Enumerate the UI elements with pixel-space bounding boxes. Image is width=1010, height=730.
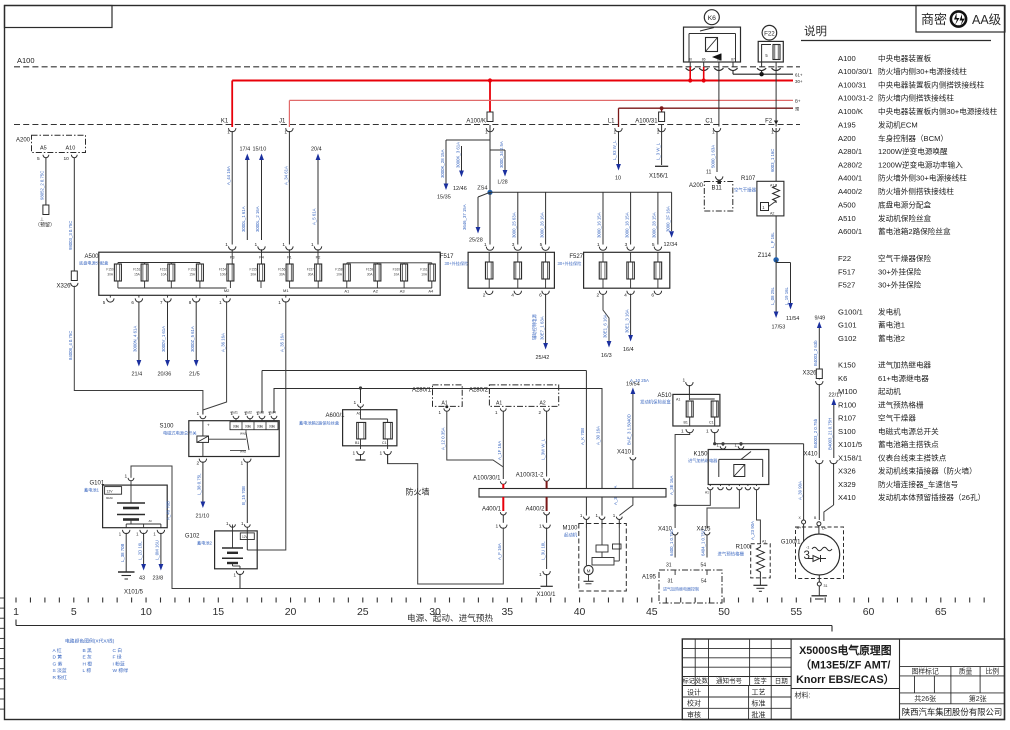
svg-text:控制: 控制 [233,425,239,429]
svg-text:A510: A510 [657,393,672,399]
svg-text:3000_16 15A: 3000_16 15A [597,212,602,238]
svg-text:65: 65 [935,606,947,618]
svg-text:-M: -M [148,519,152,523]
svg-text:G100/1: G100/1 [781,540,801,546]
svg-text:底盘电源分配盒: 底盘电源分配盒 [878,199,932,209]
svg-text:材料:: 材料: [795,691,811,700]
svg-text:17/53: 17/53 [772,325,786,331]
svg-text:A500: A500 [84,254,99,260]
svg-text:电磁式电源总开关: 电磁式电源总开关 [878,426,939,436]
svg-text:1: 1 [241,461,244,467]
svg-text:AA级: AA级 [972,13,1002,27]
svg-text:A195: A195 [838,120,856,129]
svg-text:6400_1 0.75C: 6400_1 0.75C [669,529,674,556]
svg-text:审核: 审核 [687,710,701,719]
svg-text:10: 10 [615,176,621,182]
svg-text:商密: 商密 [921,12,947,27]
svg-text:3000K_28 15A: 3000K_28 15A [440,149,445,178]
svg-text:F527: F527 [569,254,583,260]
svg-text:L_08 25L: L_08 25L [770,286,775,305]
svg-text:B1: B1 [684,421,688,425]
svg-text:45: 45 [646,606,658,618]
svg-text:F2: F2 [765,118,773,124]
svg-text:L_3 W_L: L_3 W_L [655,142,660,160]
svg-text:中央电器装置板内侧30+电源接线柱: 中央电器装置板内侧30+电源接线柱 [878,106,998,116]
svg-text:L_2D 16L: L_2D 16L [137,541,142,560]
svg-text:A_44 16A: A_44 16A [226,166,231,185]
svg-text:31: 31 [668,579,674,585]
svg-text:蓄电池箱2路保险丝盒: 蓄电池箱2路保险丝盒 [299,420,340,427]
svg-text:L_38 70B: L_38 70B [120,543,125,562]
svg-text:30: 30 [688,58,692,62]
svg-text:A100/31: A100/31 [635,118,658,124]
svg-text:5: 5 [71,606,77,618]
svg-text:F 绿: F 绿 [113,654,122,661]
svg-text:A_5 61A: A_5 61A [312,208,317,225]
svg-text:X101/5: X101/5 [838,440,862,449]
svg-text:1: 1 [282,242,285,248]
svg-text:6: 6 [539,293,542,299]
svg-text:3000V_1 61A: 3000V_1 61A [161,326,166,352]
svg-text:B4003_2 0.75b: B4003_2 0.75b [813,418,818,448]
svg-text:G101: G101 [838,321,857,330]
svg-text:100A: 100A [220,273,228,277]
svg-text:防火墙内侧搭铁接线柱: 防火墙内侧搭铁接线柱 [878,93,954,103]
svg-text:L_3W W_L: L_3W W_L [540,438,545,460]
svg-text:L_0M 16U: L_0M 16U [155,540,160,560]
svg-text:F22: F22 [838,254,851,263]
svg-text:A5: A5 [40,146,47,152]
svg-text:6404_1 0.75C: 6404_1 0.75C [701,529,706,556]
svg-text:蓄电池2: 蓄电池2 [197,540,213,547]
svg-text:B+: B+ [797,526,803,530]
svg-text:A_30 16A: A_30 16A [596,426,601,445]
svg-text:35: 35 [501,606,513,618]
svg-text:20: 20 [285,606,297,618]
svg-text:10: 10 [64,156,70,162]
svg-text:98052_2 0.75C: 98052_2 0.75C [40,171,45,200]
svg-text:12V: 12V [242,535,249,539]
svg-text:F159: F159 [366,268,373,272]
svg-text:1: 1 [284,130,287,136]
svg-text:X158/1: X158/1 [838,453,862,462]
svg-text:90Ah: 90Ah [106,496,113,500]
svg-text:L1: L1 [608,118,615,124]
svg-text:1: 1 [614,130,617,136]
svg-text:X5000S电气原理图: X5000S电气原理图 [799,643,892,657]
svg-text:3000_18 15A: 3000_18 15A [624,212,629,238]
svg-text:1: 1 [597,242,600,248]
svg-text:S100: S100 [838,427,856,436]
svg-text:23/8: 23/8 [153,576,164,582]
svg-text:1: 1 [539,572,542,578]
svg-text:16/3: 16/3 [601,353,612,359]
svg-text:防火墙连接器_车速信号: 防火墙连接器_车速信号 [878,479,959,489]
svg-text:F517: F517 [440,254,454,260]
svg-text:A510: A510 [838,214,856,223]
svg-text:进气加热继电器: 进气加热继电器 [878,360,932,370]
svg-text:5000_1 63A: 5000_1 63A [711,145,716,168]
svg-text:L_3U 10L: L_3U 10L [540,541,545,560]
svg-text:12/46: 12/46 [453,186,467,192]
svg-text:A500: A500 [838,200,856,209]
svg-text:H 橙: H 橙 [83,660,93,667]
svg-text:A200: A200 [838,134,856,143]
svg-text:X326: X326 [838,467,856,476]
svg-text:A 红: A 红 [53,647,62,654]
svg-text:A_35 16A: A_35 16A [280,333,285,352]
svg-text:A100/31-2: A100/31-2 [838,94,873,103]
svg-text:蓄电池2: 蓄电池2 [878,333,905,343]
svg-text:30+外挂保险: 30+外挂保险 [558,260,583,267]
svg-text:B4003_2 63b: B4003_2 63b [813,340,818,366]
svg-text:30A: 30A [367,273,374,277]
svg-text:87: 87 [731,58,735,62]
svg-text:A100/31: A100/31 [838,80,866,89]
svg-text:起动机: 起动机 [564,532,578,539]
svg-text:A_46 70B: A_46 70B [166,501,171,520]
svg-text:F153: F153 [188,268,195,272]
svg-text:K6: K6 [838,374,847,383]
svg-text:A100/K: A100/K [466,118,486,124]
svg-text:-1: -1 [806,546,809,550]
svg-text:A_K 70B: A_K 70B [580,428,585,445]
svg-text:D 黄: D 黄 [53,654,63,661]
svg-text:4: 4 [511,293,514,299]
svg-text:X410: X410 [617,450,632,456]
svg-text:61+电源继电器: 61+电源继电器 [878,373,929,383]
svg-text:日期: 日期 [775,677,789,685]
svg-text:60: 60 [863,606,875,618]
svg-text:Out2: Out2 [245,411,252,415]
svg-text:A100/31-2: A100/31-2 [516,473,544,479]
svg-text:ZS4: ZS4 [477,186,487,192]
svg-text:X329: X329 [838,480,856,489]
svg-text:5: 5 [540,242,543,248]
svg-text:25/42: 25/42 [536,355,550,361]
svg-text:G102: G102 [185,534,200,540]
svg-text:30E1_6 16A: 30E1_6 16A [603,314,608,338]
svg-text:X410: X410 [803,452,818,458]
svg-text:3: 3 [804,550,810,562]
svg-text:A_39 90A: A_39 90A [797,481,802,500]
svg-text:L_F 16L: L_F 16L [770,232,775,248]
svg-text:X101/5: X101/5 [124,590,144,596]
svg-text:发动机保险丝盒: 发动机保险丝盒 [640,399,671,406]
svg-text:蓄电池1: 蓄电池1 [84,487,100,494]
svg-text:说明: 说明 [804,24,827,38]
svg-text:X156/1: X156/1 [649,174,669,180]
svg-text:3000_26 16A: 3000_26 16A [539,212,544,238]
svg-text:A400/1: A400/1 [482,507,502,513]
svg-text:50: 50 [718,606,730,618]
svg-text:G102: G102 [838,334,857,343]
svg-text:10: 10 [140,606,152,618]
svg-text:1: 1 [657,130,660,136]
svg-text:M: M [587,568,591,573]
svg-text:F151: F151 [133,268,140,272]
svg-text:25: 25 [357,606,369,618]
svg-text:+: + [207,423,210,428]
svg-text:A100/30/1: A100/30/1 [838,67,873,76]
svg-text:25/28: 25/28 [469,238,483,244]
svg-text:X326: X326 [802,371,817,377]
svg-text:通知书号: 通知书号 [716,676,743,685]
svg-text:S100: S100 [159,424,174,430]
svg-text:F22: F22 [764,30,775,37]
svg-text:B 黑: B 黑 [83,648,93,654]
svg-text:L_38 0.75L: L_38 0.75L [197,473,202,495]
svg-text:R107: R107 [741,176,756,182]
svg-text:K6: K6 [708,15,717,22]
svg-text:发电机: 发电机 [878,306,901,316]
svg-text:B_15 70B: B_15 70B [241,486,246,505]
svg-text:A280/2: A280/2 [838,161,862,170]
svg-text:40: 40 [574,606,586,618]
svg-text:F154: F154 [219,268,226,272]
svg-text:54: 54 [701,579,707,585]
svg-text:发动机保险丝盒: 发动机保险丝盒 [878,213,932,223]
svg-text:F156: F156 [278,268,285,272]
svg-text:W 棕绿: W 棕绿 [113,667,129,674]
svg-text:10A: 10A [421,273,428,277]
svg-text:3000L_2 16A: 3000L_2 16A [255,206,260,232]
svg-text:1: 1 [484,242,487,248]
svg-text:1: 1 [485,130,488,136]
svg-text:标准: 标准 [752,699,766,708]
svg-text:（M13E5/ZF AMT/: （M13E5/ZF AMT/ [800,659,890,672]
svg-text:防火墙外侧30+电源接线柱: 防火墙外侧30+电源接线柱 [878,173,967,183]
svg-text:98003_3 0.75C: 98003_3 0.75C [68,221,73,250]
svg-text:电源、起动、进气预热: 电源、起动、进气预热 [407,612,493,623]
svg-text:A2: A2 [540,401,546,407]
svg-text:K1: K1 [221,118,229,124]
svg-text:电磁式电源总开关: 电磁式电源总开关 [163,430,197,437]
svg-text:A2: A2 [770,211,774,215]
svg-text:2: 2 [197,461,200,467]
svg-text:C1: C1 [705,118,713,124]
svg-text:Out1: Out1 [231,411,238,415]
svg-text:M100: M100 [563,526,579,532]
svg-text:F155: F155 [250,268,257,272]
svg-text:A100: A100 [17,56,35,65]
svg-text:31: 31 [666,563,672,569]
svg-text:20/4: 20/4 [311,147,322,153]
svg-text:6003_1 16C: 6003_1 16C [770,149,775,172]
svg-text:发动机本体预留插接器（26孔）: 发动机本体预留插接器（26孔） [878,492,985,502]
svg-text:蓄电池1: 蓄电池1 [878,320,905,330]
svg-text:图样标记: 图样标记 [912,667,939,676]
svg-text:控制: 控制 [257,425,263,429]
svg-text:L_93 W_L: L_93 W_L [612,140,617,160]
svg-text:1: 1 [681,429,684,435]
svg-text:共26张: 共26张 [914,694,936,703]
svg-text:30A: 30A [279,273,286,277]
svg-text:中央电器装置板内侧搭铁接线柱: 中央电器装置板内侧搭铁接线柱 [878,79,985,89]
svg-text:K150: K150 [693,452,708,458]
svg-text:1: 1 [225,242,228,248]
svg-text:6: 6 [651,293,654,299]
svg-text:F157: F157 [307,268,314,272]
svg-text:9/49: 9/49 [815,316,826,322]
svg-text:L 棕: L 棕 [83,667,92,674]
svg-text:A_F 16A: A_F 16A [497,543,502,560]
svg-text:G 紫: G 紫 [53,661,63,667]
svg-text:54: 54 [701,563,707,569]
svg-text:A1: A1 [676,398,680,402]
svg-text:1200W逆变电源功率输入: 1200W逆变电源功率输入 [878,160,963,170]
svg-text:84008_4 0.75C: 84008_4 0.75C [68,331,73,360]
svg-text:15/10: 15/10 [253,147,267,153]
svg-text:M1: M1 [283,288,289,293]
svg-text:签字: 签字 [754,676,768,685]
svg-text:1: 1 [353,451,356,457]
svg-text:1: 1 [354,400,357,406]
svg-text:11: 11 [706,170,711,176]
svg-text:B11: B11 [712,186,723,192]
svg-text:控制: 控制 [269,425,275,429]
svg-text:3000_25 63A: 3000_25 63A [512,212,517,238]
svg-text:A1: A1 [762,540,766,544]
svg-text:A195: A195 [642,575,657,581]
svg-text:A600/1: A600/1 [838,227,862,236]
svg-text:55: 55 [790,606,802,618]
svg-text:预: 预 [795,106,799,113]
svg-text:（预留）: （预留） [35,222,55,229]
svg-text:2: 2 [483,293,486,299]
svg-text:M2: M2 [224,288,230,293]
svg-text:30E1_3 16A: 30E1_3 16A [624,309,629,333]
svg-text:2: 2 [597,293,600,299]
svg-text:校对: 校对 [687,699,701,708]
svg-text:21/10: 21/10 [196,514,210,520]
svg-text:12/34: 12/34 [664,242,678,248]
svg-text:1: 1 [197,411,200,417]
svg-text:A1: A1 [496,401,502,407]
svg-text:A_3E 16A: A_3E 16A [669,476,674,495]
svg-text:F517: F517 [838,267,855,276]
svg-text:空气干燥器保险: 空气干燥器保险 [878,253,932,263]
svg-text:A1: A1 [344,288,350,293]
svg-text:11/54: 11/54 [786,316,799,322]
svg-text:A_36 16A: A_36 16A [220,333,225,352]
svg-text:底盘电源分配盒: 底盘电源分配盒 [79,260,109,267]
svg-text:31: 31 [824,584,828,588]
svg-text:车身控制器（BCM）: 车身控制器（BCM） [878,133,948,143]
svg-text:A400/2: A400/2 [525,507,545,513]
svg-text:F152: F152 [160,268,167,272]
svg-text:21/5: 21/5 [189,372,200,378]
svg-text:85: 85 [717,58,721,62]
svg-text:X100/1: X100/1 [537,592,557,598]
svg-text:工艺: 工艺 [752,688,766,696]
svg-text:A1: A1 [770,184,774,188]
svg-text:I 粉蓝: I 粉蓝 [113,660,125,667]
svg-text:空气干燥器: 空气干燥器 [734,187,757,194]
svg-text:陕西汽车集团股份有限公司: 陕西汽车集团股份有限公司 [902,707,1003,717]
svg-text:进气预热格栅: 进气预热格栅 [718,551,745,558]
svg-text:86: 86 [702,58,706,62]
svg-text:A100/K: A100/K [838,107,863,116]
svg-text:30E7_1 63A: 30E7_1 63A [539,316,544,340]
svg-text:15A: 15A [134,273,141,277]
svg-text:X410: X410 [838,493,856,502]
svg-text:A_12 0.35A: A_12 0.35A [441,427,446,450]
svg-text:1: 1 [712,130,715,136]
svg-text:进气预热格栅: 进气预热格栅 [878,399,924,409]
svg-text:30+外挂保险: 30+外挂保险 [878,280,922,290]
svg-text:电路颜色图例(X代X/线): 电路颜色图例(X代X/线) [65,638,115,645]
svg-text:A100/30/1: A100/30/1 [473,476,501,482]
svg-text:A_10 25A: A_10 25A [630,378,649,383]
svg-text:L/28: L/28 [498,180,508,186]
svg-text:12V: 12V [107,490,114,494]
svg-text:A200: A200 [16,138,31,144]
svg-text:A280/1: A280/1 [838,147,862,156]
svg-text:30+: 30+ [795,79,803,84]
svg-text:A10: A10 [66,146,76,152]
svg-text:G100/1: G100/1 [838,307,863,316]
svg-text:标记: 标记 [683,677,695,685]
svg-text:30A: 30A [107,273,114,277]
svg-text:A100: A100 [838,54,856,63]
svg-text:B4003_21 0.75H: B4003_21 0.75H [828,418,833,450]
svg-text:21/4: 21/4 [132,372,143,378]
svg-text:A1: A1 [705,491,709,495]
svg-text:B+: B+ [795,99,801,104]
svg-text:蓄电池箱主搭铁点: 蓄电池箱主搭铁点 [878,439,939,449]
svg-text:15: 15 [212,606,224,618]
svg-text:61+: 61+ [795,73,803,78]
svg-text:BAE_3 1.5040D: BAE_3 1.5040D [627,414,632,445]
svg-text:F527: F527 [838,281,855,290]
svg-text:空气干燥器: 空气干燥器 [878,413,916,423]
svg-text:15/35: 15/35 [437,195,451,201]
svg-text:F161: F161 [420,268,427,272]
svg-text:1: 1 [227,130,230,136]
svg-text:30+外挂保险: 30+外挂保险 [878,266,922,276]
svg-text:15A: 15A [189,273,196,277]
svg-text:16/4: 16/4 [623,347,634,353]
svg-text:第2张: 第2张 [969,694,987,703]
svg-text:1: 1 [706,429,709,435]
svg-text:4: 4 [624,293,627,299]
svg-text:A2: A2 [373,288,379,293]
svg-text:3646_37 15A: 3646_37 15A [462,204,467,230]
svg-text:R100: R100 [838,400,856,409]
svg-text:K150: K150 [838,361,856,370]
svg-text:仪表台线束主搭铁点: 仪表台线束主搭铁点 [878,452,947,462]
svg-text:1: 1 [496,524,499,530]
svg-text:A400/1: A400/1 [838,174,862,183]
svg-text:Z114: Z114 [758,253,772,259]
svg-text:1: 1 [13,606,19,618]
svg-text:5: 5 [37,156,40,162]
svg-text:3000N_4 61A: 3000N_4 61A [133,326,138,352]
svg-text:20/36: 20/36 [158,372,172,378]
svg-text:C1: C1 [382,441,387,445]
svg-text:A1: A1 [357,412,361,416]
svg-text:3000K_3 61A: 3000K_3 61A [456,142,461,168]
svg-text:1: 1 [380,451,383,457]
svg-text:3000_2F 16A: 3000_2F 16A [665,206,670,232]
svg-text:发动机ECM: 发动机ECM [878,119,918,129]
svg-text:A200: A200 [689,183,704,189]
svg-text:10A: 10A [336,273,343,277]
svg-text:比例: 比例 [986,667,1000,676]
svg-text:设计: 设计 [687,687,701,696]
svg-text:1200W逆变电源唤醒: 1200W逆变电源唤醒 [878,146,948,156]
